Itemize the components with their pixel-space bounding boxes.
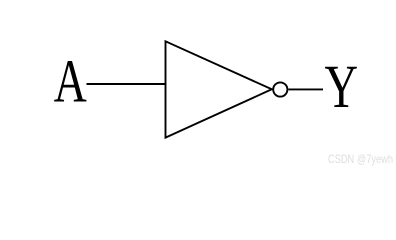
wire bubble to output Y [288,88,323,90]
inverter U1 triangle [166,41,272,137]
svg-text:CSDN @7yewh: CSDN @7yewh [328,153,393,166]
wire input A to inverter [87,83,167,85]
svg-text:Y: Y [325,54,359,121]
svg-text:A: A [54,49,87,116]
inverter U1 output bubble [273,82,287,96]
